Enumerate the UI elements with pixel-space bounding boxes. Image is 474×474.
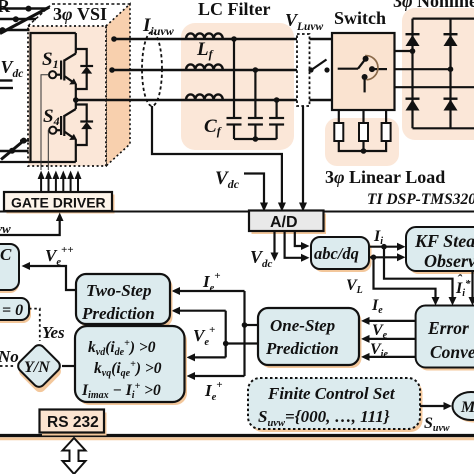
wire KF output to error conversion <box>471 271 473 298</box>
3-phase slash top <box>0 7 50 34</box>
wire 3ph lower a <box>20 140 29 142</box>
junction dots lower <box>21 138 27 144</box>
wire phase v <box>112 69 311 71</box>
switch box <box>332 33 395 110</box>
gate driver box <box>7 195 115 214</box>
two-step prediction box <box>79 277 173 327</box>
current sensor ellipse Iiuvw <box>142 32 162 106</box>
3-phase slash lower <box>1 140 25 160</box>
LC filter region box <box>181 23 294 150</box>
wire error to one-step Ve <box>370 338 416 340</box>
svg-text:Y/N: Y/N <box>24 359 51 376</box>
svg-text:Prediction: Prediction <box>81 304 155 323</box>
RS232 double arrow <box>63 438 86 474</box>
diode D11 <box>406 35 420 46</box>
DSP top boundary line <box>0 211 474 213</box>
svg-text:Observer: Observer <box>424 251 474 271</box>
wire Vdc out of A/D <box>273 231 275 253</box>
resistor R2 <box>359 123 368 141</box>
svg-text:Conver: Conver <box>430 342 474 362</box>
wire switch to bridge leg2 <box>395 68 451 70</box>
svg-text:3φ Linear Load: 3φ Linear Load <box>325 167 445 187</box>
junction dots top <box>26 6 32 12</box>
conditions box <box>78 329 188 405</box>
dotted wire No <box>0 365 16 367</box>
KF observer box <box>409 230 474 274</box>
VSI top face edges <box>28 4 52 26</box>
cost fn box C (clipped) <box>0 247 19 293</box>
wire Ii tap to error conversion <box>384 247 453 298</box>
wire phase u <box>114 38 332 40</box>
wire Vdc sense to A/D <box>244 174 264 204</box>
wire 3ph lower b <box>0 150 29 152</box>
A/D converter box <box>252 214 327 235</box>
diode D4 (antiparallel S4) <box>76 105 93 146</box>
svg-text:Prediction: Prediction <box>265 339 339 358</box>
wire Y/N to conditions <box>62 365 76 367</box>
wire abc/dq to KF upper (Ii) <box>369 246 398 248</box>
wire A/D to abc/dq upper <box>295 231 301 246</box>
wire 3ph top a <box>0 7 48 9</box>
svg-text:Error: Error <box>427 318 469 338</box>
wire Suvw to min block <box>420 405 444 407</box>
wire: DC bottom rail <box>0 161 76 163</box>
svg-text:LC Filter: LC Filter <box>198 0 270 19</box>
finite control set box <box>251 381 423 432</box>
voltage sensor box VLuvw <box>297 34 310 106</box>
gate signal arrows <box>38 171 82 192</box>
transistor Q2 (S4 IGBT) <box>49 100 76 162</box>
DSP bottom boundary line <box>0 437 474 440</box>
switch break on phase v <box>308 67 313 72</box>
box =0 (clipped) <box>0 301 31 323</box>
linear load stubs <box>338 110 340 123</box>
wire Ve++ to cost fn <box>30 266 76 290</box>
selector switch symbol <box>338 56 387 93</box>
transistor Q1 (S1 IGBT) <box>49 33 76 100</box>
wire error to one-step Ie <box>370 320 416 322</box>
error conversion box <box>418 309 474 371</box>
svg-text:3φ VSI: 3φ VSI <box>53 4 107 24</box>
svg-text:= 0: = 0 <box>2 302 23 319</box>
bridge junction dots <box>410 48 416 54</box>
wire: gate lead S4 to driver <box>47 130 50 170</box>
svg-text:Two-Step: Two-Step <box>86 281 151 300</box>
linear load region box <box>325 118 399 166</box>
wire 3ph top b <box>0 18 36 20</box>
dotted wire =0 to Y/N <box>29 309 40 341</box>
VSI front face <box>28 26 106 166</box>
diode D12 <box>444 35 458 46</box>
bridge top bus <box>413 18 474 20</box>
svg-text:No: No <box>0 347 19 366</box>
battery plates <box>0 79 13 81</box>
bridge rail 1 <box>411 19 413 129</box>
Y/N decision diamond <box>14 343 66 395</box>
bridge bottom bus <box>413 127 474 129</box>
svg-text:M: M <box>460 399 474 416</box>
wire A/D to abc/dq lower <box>285 231 301 258</box>
svg-text:RS 232: RS 232 <box>47 414 99 431</box>
inductor Lf phase w <box>186 94 223 100</box>
abc/dq box <box>314 240 372 272</box>
svg-text:3φ Nonlinear: 3φ Nonlinear <box>393 0 474 11</box>
diode D1 (antiparallel S1) <box>76 49 93 89</box>
wire: DC top rail <box>31 33 76 162</box>
min block M (clipped) <box>455 395 474 423</box>
svg-text:abc/dq: abc/dq <box>314 244 359 263</box>
svg-text:Switch: Switch <box>334 8 386 28</box>
junction dots on VSI side face <box>111 36 117 42</box>
svg-text:GATE DRIVER: GATE DRIVER <box>11 195 106 211</box>
svg-text:KF Steady-s: KF Steady-s <box>414 231 474 251</box>
wire: gate lead S1 to driver <box>41 75 49 170</box>
diode D14 <box>444 100 458 111</box>
wire switch to bridge leg1 <box>395 50 413 52</box>
capacitor C1 <box>227 39 242 139</box>
wire 3ph top c <box>0 29 30 31</box>
nonlinear-load bridge region box <box>402 8 474 140</box>
wire Ie+ loop (outer) <box>243 291 245 376</box>
wire VL tap to error conversion <box>374 257 436 298</box>
load bottom bus <box>339 141 386 151</box>
capacitor C3 <box>269 100 284 139</box>
wire Suvw to gate driver <box>0 219 60 235</box>
svg-text:Finite Control Set: Finite Control Set <box>267 384 396 403</box>
node A (leg midpoint) <box>73 97 79 103</box>
wire phase w <box>76 99 332 101</box>
wire Ve+ loop (inner) <box>225 311 227 358</box>
svg-text:uvw: uvw <box>0 221 11 236</box>
capacitor bottom bus <box>234 138 277 140</box>
svg-text:Yes: Yes <box>42 323 65 342</box>
capacitor C2 <box>248 70 263 139</box>
wire current sense to A/D <box>152 106 282 203</box>
svg-text:One-Step: One-Step <box>270 316 335 335</box>
wire voltage sense to A/D <box>302 106 304 203</box>
wire error to one-step Vie <box>370 356 416 358</box>
svg-text:A/D: A/D <box>270 214 298 231</box>
VSI side face <box>106 4 130 166</box>
svg-text:C: C <box>0 245 12 264</box>
wire switch to bridge leg3 <box>395 86 474 88</box>
svg-text:TI DSP-TMS320F28335: TI DSP-TMS320F28335 <box>367 191 474 208</box>
resistor R3 <box>382 123 391 141</box>
diode D13 <box>406 100 420 111</box>
inductor Lf phase v <box>186 64 223 70</box>
resistor R1 <box>334 123 343 141</box>
one-step prediction box <box>261 311 362 368</box>
inductor Lf phase u <box>186 33 223 39</box>
junction dots phase taps <box>231 36 237 42</box>
wire abc/dq to KF lower (VL) <box>369 256 398 258</box>
bridge rail 2 <box>449 19 451 129</box>
RS 232 box <box>42 413 107 436</box>
